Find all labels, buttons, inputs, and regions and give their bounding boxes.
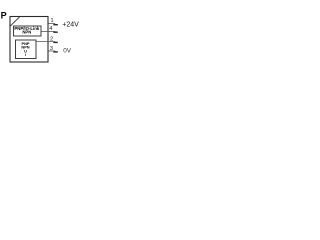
- svg-text:+24V: +24V: [62, 22, 79, 29]
- svg-text:2: 2: [50, 37, 53, 43]
- svg-text:0V: 0V: [63, 48, 72, 55]
- svg-text:I: I: [25, 52, 26, 57]
- svg-text:NPN: NPN: [22, 30, 31, 35]
- svg-text:P: P: [1, 11, 7, 21]
- svg-text:1: 1: [50, 18, 53, 24]
- svg-text:3: 3: [50, 46, 53, 52]
